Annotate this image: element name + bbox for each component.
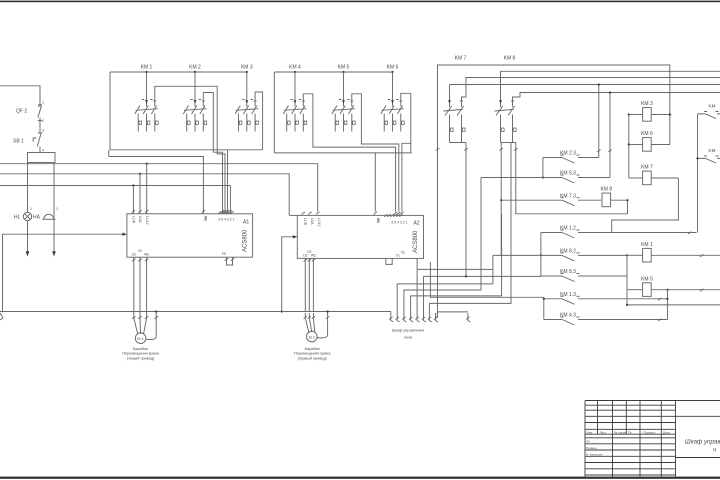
contactor KM8 bbox=[501, 71, 513, 107]
contactor KM 5 bbox=[344, 100, 352, 107]
wire KM5 flag bbox=[352, 94, 399, 212]
svg-text:(правый привод): (правый привод) bbox=[298, 356, 328, 360]
svg-text:QF 2: QF 2 bbox=[16, 109, 27, 115]
wire A1 enable bbox=[3, 234, 126, 311]
tick rung1 right bbox=[688, 232, 691, 234]
svg-text:U2: U2 bbox=[303, 254, 307, 258]
wire supply feed bbox=[0, 86, 40, 103]
svg-text:№ докум.: № докум. bbox=[614, 430, 627, 434]
node bus1 tap A1 bbox=[146, 163, 148, 165]
contact KM7.3 bbox=[501, 200, 601, 206]
converter A2 box bbox=[297, 215, 423, 258]
wire KM1.3 left ext bbox=[430, 262, 543, 297]
tick v515 bbox=[514, 148, 517, 150]
wire group1 top bus bbox=[110, 71, 248, 73]
A1 PE loop bbox=[227, 257, 233, 265]
svg-text:1: 1 bbox=[42, 101, 44, 105]
svg-text:2: 2 bbox=[42, 119, 44, 123]
svg-text:Изм: Изм bbox=[587, 430, 593, 434]
contactor KM 2 bbox=[195, 100, 203, 107]
bus L3 bbox=[0, 185, 230, 187]
frame bottom border bbox=[0, 477, 720, 479]
svg-text:HL: HL bbox=[14, 215, 21, 221]
coil KM5 bbox=[643, 283, 652, 297]
svg-text:L1/R: L1/R bbox=[131, 216, 135, 224]
wire KM6 flag bbox=[401, 93, 411, 153]
coil KM6 bbox=[643, 138, 652, 152]
wire clu 417 branch bbox=[417, 268, 493, 270]
node bracket1 bbox=[542, 176, 544, 178]
wire A2 enable bbox=[282, 237, 296, 312]
rail A bbox=[438, 65, 670, 318]
svg-text:Барабан: Барабан bbox=[133, 347, 148, 351]
svg-text:KM 4.3: KM 4.3 bbox=[560, 313, 576, 319]
svg-text:Шкаф управления: Шкаф управления bbox=[392, 329, 424, 333]
svg-text:KM 4: KM 4 bbox=[289, 65, 301, 71]
motor M2 bbox=[305, 313, 309, 332]
tick exit2 bbox=[700, 289, 703, 291]
svg-text:Пп: Пп bbox=[628, 430, 632, 434]
contact KM1.2 bbox=[541, 233, 697, 239]
wire KM7 coil wires bbox=[629, 177, 643, 179]
wire clu 435 bbox=[435, 313, 437, 318]
wire KM8 rp down bbox=[516, 143, 628, 214]
node coil rail 1 bbox=[628, 113, 630, 115]
node rail E corner bbox=[609, 91, 611, 93]
wire clu 397 bbox=[397, 255, 493, 313]
wire group1 lower bus bbox=[109, 157, 204, 214]
coil KM3 bbox=[643, 108, 652, 122]
rail C bbox=[462, 78, 720, 101]
svg-text:KM 8.3: KM 8.3 bbox=[560, 269, 576, 275]
svg-text:KM 7: KM 7 bbox=[641, 165, 653, 171]
node bus2 tap A1 bbox=[139, 173, 141, 175]
node KM 6 top bbox=[391, 71, 393, 73]
svg-text:X1: X1 bbox=[396, 254, 400, 258]
contact KM2.3 bbox=[543, 158, 599, 164]
title block grid bbox=[585, 401, 720, 477]
contact KM5.3 bbox=[481, 178, 610, 184]
wire bus2 to A1 bbox=[139, 174, 141, 214]
wire exit 304 bbox=[627, 290, 720, 305]
wire KM6 flag link bbox=[402, 143, 411, 211]
tick v501 bbox=[500, 148, 503, 150]
wire A1 ctrl 4 bbox=[229, 186, 231, 214]
wire group1 left edge bbox=[109, 72, 111, 150]
boundary end hook bbox=[0, 313, 3, 320]
svg-text:Перемещения крана: Перемещения крана bbox=[122, 352, 159, 356]
wire lad bracket1 bbox=[542, 158, 544, 178]
svg-text:Дата: Дата bbox=[663, 430, 670, 434]
svg-text:W2: W2 bbox=[311, 254, 316, 258]
bus L2 bbox=[0, 174, 289, 216]
node KM3 right bbox=[669, 113, 671, 115]
contact right2 bbox=[698, 158, 720, 163]
wire rail D drop bbox=[598, 85, 600, 158]
wire boundary bbox=[0, 311, 391, 313]
coil KM1 bbox=[643, 248, 652, 262]
contactor KM7 bbox=[450, 85, 462, 108]
svg-text:M 1: M 1 bbox=[137, 337, 143, 341]
A1 motor wires bbox=[133, 262, 135, 313]
svg-text:L1/R: L1/R bbox=[303, 218, 307, 226]
wire A1 ctrl 3 bbox=[227, 150, 229, 214]
svg-text:KM 1: KM 1 bbox=[641, 242, 653, 248]
node ladder right cross bbox=[666, 298, 668, 300]
svg-text:V2: V2 bbox=[138, 249, 142, 253]
contact KM8.2 bbox=[493, 255, 627, 261]
tick v610 bbox=[608, 150, 611, 152]
A2 cluster edge ticks bbox=[384, 214, 387, 217]
svg-text:1: 1 bbox=[30, 207, 32, 211]
wire KM 1 feed bbox=[146, 72, 148, 100]
svg-text:6 5 4 3 2 1: 6 5 4 3 2 1 bbox=[219, 218, 235, 222]
wire KM 6 feed bbox=[392, 72, 394, 100]
node exit 304 bbox=[626, 304, 628, 306]
wire KM3 flag bbox=[255, 92, 263, 150]
svg-text:U1/L: U1/L bbox=[310, 218, 314, 225]
A1 bottom pins U2V2W2 bbox=[133, 257, 135, 262]
switch SB1 bbox=[33, 125, 42, 153]
motor M1 bbox=[134, 313, 138, 334]
bus L1 bbox=[0, 164, 318, 212]
svg-text:X2: X2 bbox=[401, 250, 405, 254]
tick rung8 right bbox=[658, 319, 661, 321]
wire group2 bottom bbox=[274, 152, 411, 154]
A2 bottom pins bbox=[304, 258, 306, 262]
svg-text:НЧ: НЧ bbox=[586, 440, 590, 444]
wire clu 403 bbox=[404, 178, 481, 314]
node bracket3 bbox=[543, 298, 545, 300]
wire KM 4 feed bbox=[294, 72, 296, 100]
tick v437 bbox=[436, 148, 439, 150]
svg-text:Барабан: Барабан bbox=[305, 347, 320, 351]
contactor KM 1 bbox=[147, 100, 155, 107]
tick rung7 right bbox=[658, 298, 661, 300]
wire coil rail bbox=[628, 115, 630, 179]
wire KM8 coil right bbox=[611, 200, 628, 214]
node KM 5 top bbox=[342, 71, 344, 73]
contactor KM 4 bbox=[295, 100, 303, 107]
wire lad bracket3 bbox=[543, 297, 545, 319]
arrow A1 enable entry bbox=[122, 233, 127, 236]
wire group2 top bus bbox=[274, 71, 393, 73]
svg-text:6 5 4 3 2 1: 6 5 4 3 2 1 bbox=[392, 221, 408, 225]
node bracket2 bbox=[540, 254, 542, 256]
svg-text:0B: 0B bbox=[204, 216, 208, 221]
arrow bell bbox=[52, 251, 56, 256]
wire KM 3 feed bbox=[246, 72, 248, 100]
frame top border bbox=[0, 1, 720, 3]
wire bus3 to A1 bbox=[132, 186, 134, 214]
node KM 4 top bbox=[294, 71, 296, 73]
svg-text:Перемещения крана: Перемещения крана bbox=[294, 352, 331, 356]
svg-text:(левый привод): (левый привод) bbox=[127, 356, 155, 360]
svg-text:ACS800: ACS800 bbox=[243, 229, 249, 252]
wire clu 410 bbox=[411, 214, 502, 313]
wire KM1-KM5 rail bbox=[626, 255, 628, 289]
svg-text:1: 1 bbox=[56, 207, 58, 211]
svg-text:ACS800: ACS800 bbox=[413, 230, 419, 253]
node KM8.2 right bbox=[626, 254, 628, 256]
svg-text:KM 1: KM 1 bbox=[141, 65, 153, 71]
svg-text:SB 1: SB 1 bbox=[13, 139, 24, 145]
wire clu 417 bbox=[416, 258, 418, 313]
wire KM5 coil wires bbox=[627, 289, 643, 291]
rail D bbox=[450, 84, 720, 86]
wire clu 423 bbox=[423, 276, 425, 313]
terminal box X1 bbox=[28, 153, 56, 163]
wire KM1.2 step bbox=[612, 178, 679, 233]
wire KM 5 feed bbox=[343, 72, 345, 100]
A2 PE loop bbox=[386, 258, 392, 264]
svg-text:KM 6: KM 6 bbox=[641, 131, 653, 137]
node A2 enable bbox=[281, 310, 283, 312]
wire bell drop bbox=[53, 163, 55, 255]
svg-text:U2: U2 bbox=[132, 253, 136, 257]
svg-text:KM 2: KM 2 bbox=[189, 65, 201, 71]
node KM 3 top bbox=[246, 71, 248, 73]
svg-text:KM 1.2: KM 1.2 bbox=[560, 226, 576, 232]
contact KM1.3 bbox=[544, 299, 668, 305]
svg-text:KM: KM bbox=[709, 104, 716, 109]
cluster far tick bbox=[466, 317, 469, 320]
svg-text:PE: PE bbox=[222, 252, 227, 256]
A2 top pin ticks bbox=[302, 212, 305, 215]
A1 cluster edge ticks bbox=[218, 211, 221, 214]
svg-text:Н. Контроль: Н. Контроль bbox=[586, 452, 603, 456]
svg-text:M 2: M 2 bbox=[309, 335, 315, 339]
wire KM 2 feed bbox=[194, 72, 196, 100]
tick v466 bbox=[464, 148, 467, 150]
node KM 2 top bbox=[194, 71, 196, 73]
wire lamp out bbox=[27, 221, 29, 254]
svg-text:KM 7.3: KM 7.3 bbox=[560, 193, 576, 199]
node KM8 coil right bbox=[626, 199, 628, 201]
svg-text:A1: A1 bbox=[243, 220, 249, 226]
wire KM3 coil wires bbox=[629, 114, 643, 116]
A2 motor wires bbox=[304, 262, 306, 311]
svg-text:KM 3: KM 3 bbox=[241, 65, 253, 71]
coil KM7c bbox=[643, 171, 652, 185]
wire group1 bottom bbox=[110, 149, 263, 151]
svg-text:L1/L2: L1/L2 bbox=[145, 216, 149, 225]
contact KM8.3 bbox=[541, 276, 627, 282]
node KM 1 top bbox=[145, 71, 147, 73]
svg-text:W2: W2 bbox=[144, 253, 149, 257]
wire KM1 flag bbox=[155, 86, 225, 214]
svg-text:KM 3: KM 3 bbox=[641, 101, 653, 107]
node ladder right v top bbox=[666, 289, 668, 291]
svg-text:KM 2.3: KM 2.3 bbox=[560, 151, 576, 157]
wire group1 lower bus stub bbox=[108, 150, 110, 157]
cluster ticks bbox=[389, 317, 392, 320]
svg-text:KM 6: KM 6 bbox=[387, 65, 399, 71]
wire KM8.3 left ext bbox=[424, 275, 541, 277]
wire KM4 flag bbox=[303, 94, 395, 212]
node rail D corner bbox=[598, 83, 600, 85]
svg-text:U1/L: U1/L bbox=[138, 216, 142, 223]
wire bus2 A2 link bbox=[289, 214, 297, 216]
node coil rail 2 bbox=[628, 143, 630, 145]
svg-text:Подпись: Подпись bbox=[644, 430, 656, 434]
node KM8 lp tap bbox=[500, 199, 502, 201]
tick exit1 bbox=[700, 254, 703, 256]
contactor KM 6 bbox=[393, 100, 401, 107]
bell HA bbox=[44, 214, 54, 219]
A1 top pin ticks bbox=[132, 210, 135, 213]
wire group2 mid drop bbox=[374, 153, 376, 212]
svg-text:Провер.: Провер. bbox=[586, 446, 597, 450]
wire bus1 to A1 bbox=[146, 164, 148, 214]
svg-text:KM 5: KM 5 bbox=[641, 276, 653, 282]
svg-text:KM: KM bbox=[709, 148, 716, 153]
svg-text:KM 8.2: KM 8.2 bbox=[560, 249, 576, 255]
rail E bbox=[513, 93, 720, 101]
svg-text:KM 5.3: KM 5.3 bbox=[560, 171, 576, 177]
tick v598 bbox=[597, 150, 600, 152]
wire ladder right v bbox=[667, 290, 669, 320]
svg-text:0B: 0B bbox=[376, 218, 380, 223]
svg-text:KM 8: KM 8 bbox=[600, 187, 612, 193]
svg-text:4: 4 bbox=[42, 149, 44, 153]
node bus3 tap A1 bbox=[132, 184, 134, 186]
arrow lamp bbox=[26, 251, 30, 256]
wire rail E drop bbox=[609, 93, 611, 178]
wire lad bracket2 bbox=[540, 233, 542, 277]
node KM7 joins bbox=[465, 275, 467, 277]
contact right1 bbox=[698, 114, 720, 119]
wire KM1 coil wires bbox=[627, 254, 643, 256]
wire KM8 lp down bbox=[500, 143, 502, 256]
contact KM4.3 bbox=[544, 320, 668, 326]
svg-text:KM 7: KM 7 bbox=[455, 56, 467, 62]
lamp HL bbox=[23, 212, 31, 220]
breaker QF2 bbox=[38, 103, 42, 125]
wire KM7 down bbox=[465, 143, 467, 277]
arrow A2 enable entry bbox=[293, 235, 298, 238]
svg-text:печи: печи bbox=[404, 336, 412, 340]
wire right rail bbox=[697, 114, 699, 233]
svg-text:L1/L2: L1/L2 bbox=[317, 218, 321, 227]
converter A1 box bbox=[127, 214, 253, 257]
svg-text:Лист: Лист bbox=[600, 430, 607, 434]
svg-text:HA: HA bbox=[33, 215, 41, 221]
svg-text:KM 5: KM 5 bbox=[338, 65, 350, 71]
wire KM2 flag bbox=[203, 93, 222, 214]
wire clu seg bbox=[438, 311, 468, 313]
svg-text:A2: A2 bbox=[414, 221, 420, 227]
svg-text:3: 3 bbox=[42, 129, 44, 133]
node right rail mid bbox=[696, 157, 698, 159]
wire group2 left edge bbox=[273, 72, 275, 153]
coil KM8 bbox=[602, 193, 611, 207]
wire lamp drop bbox=[27, 163, 29, 213]
wire KM6 coil wires bbox=[629, 144, 643, 146]
wire clu 429 bbox=[429, 143, 511, 314]
svg-text:Шкаф управления: Шкаф управления bbox=[685, 439, 720, 446]
rail B bbox=[501, 71, 720, 84]
svg-text:KM 1.3: KM 1.3 bbox=[560, 292, 576, 298]
svg-text:KM 8: KM 8 bbox=[504, 56, 516, 62]
contactor KM 3 bbox=[247, 100, 255, 107]
